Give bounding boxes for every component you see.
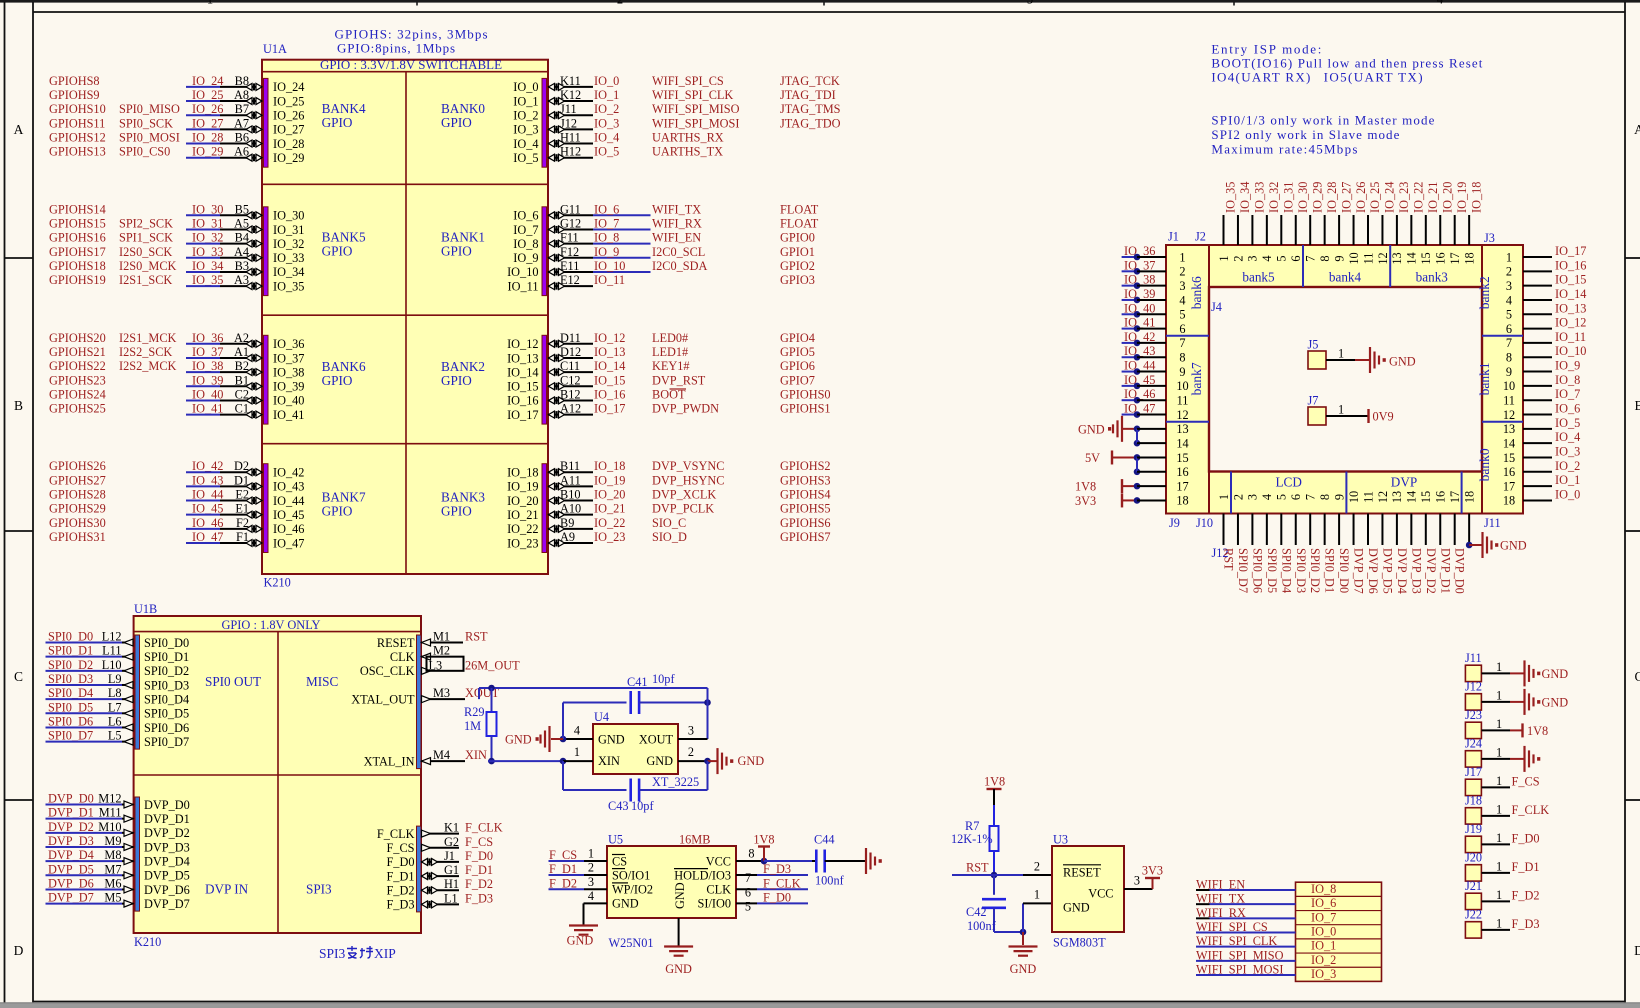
svg-text:F_D2: F_D2 (1512, 888, 1540, 902)
svg-text:DVP_D3: DVP_D3 (48, 834, 94, 848)
svg-text:bank1: bank1 (1477, 362, 1492, 395)
svg-text:IO_25: IO_25 (273, 94, 304, 108)
svg-text:GPIOHS0: GPIOHS0 (780, 387, 831, 401)
svg-text:SPI0_D4: SPI0_D4 (144, 692, 189, 706)
svg-text:GPIOHS28: GPIOHS28 (49, 488, 106, 502)
svg-text:DVP: DVP (1391, 475, 1417, 490)
svg-text:GPIOHS23: GPIOHS23 (49, 373, 106, 387)
svg-text:E12: E12 (560, 273, 580, 287)
svg-text:IO_43: IO_43 (192, 473, 223, 487)
svg-text:10: 10 (1503, 379, 1515, 393)
svg-text:GND: GND (646, 754, 673, 768)
svg-text:G12: G12 (560, 216, 581, 230)
svg-text:DVP_D0: DVP_D0 (48, 792, 94, 806)
svg-text:IO_24: IO_24 (1383, 182, 1397, 213)
svg-text:GND: GND (1500, 539, 1527, 553)
svg-text:IO_32: IO_32 (273, 237, 304, 251)
svg-text:F_CLK: F_CLK (465, 821, 503, 835)
svg-text:GPIOHS30: GPIOHS30 (49, 516, 106, 530)
svg-text:IO_8: IO_8 (594, 231, 619, 245)
svg-text:SI/IO0: SI/IO0 (698, 897, 731, 911)
svg-text:IO_26: IO_26 (1354, 182, 1368, 213)
svg-text:IO_17: IO_17 (594, 402, 625, 416)
svg-text:DVP_D4: DVP_D4 (48, 848, 94, 862)
svg-text:GND: GND (598, 733, 625, 747)
svg-text:I2S1_SCK: I2S1_SCK (119, 273, 172, 287)
svg-text:GPIOHS19: GPIOHS19 (49, 273, 106, 287)
svg-text:3V3: 3V3 (1075, 494, 1096, 508)
svg-text:DVP_D1: DVP_D1 (144, 812, 190, 826)
svg-text:GPIOHS11: GPIOHS11 (49, 116, 105, 130)
svg-text:IO_22: IO_22 (507, 522, 538, 536)
svg-text:FLOAT: FLOAT (780, 202, 819, 216)
svg-text:FLOAT: FLOAT (780, 216, 819, 230)
svg-text:J1: J1 (444, 849, 455, 863)
svg-text:F_D2: F_D2 (549, 876, 577, 890)
svg-text:M4: M4 (433, 748, 450, 762)
svg-text:WIFI_SPI_CLK: WIFI_SPI_CLK (652, 88, 733, 102)
svg-text:0V9: 0V9 (1373, 410, 1394, 424)
svg-text:IO_44: IO_44 (273, 494, 304, 508)
svg-text:SPI0_D0: SPI0_D0 (1337, 548, 1351, 593)
svg-text:IO_35: IO_35 (273, 279, 304, 293)
svg-text:12: 12 (1376, 491, 1390, 503)
svg-text:GPIO: GPIO (441, 373, 472, 388)
svg-text:4: 4 (1437, 0, 1444, 7)
svg-text:9: 9 (1332, 255, 1346, 261)
svg-text:DVP_D1: DVP_D1 (48, 806, 94, 820)
svg-text:3: 3 (1506, 279, 1512, 293)
svg-text:IO_34: IO_34 (1238, 182, 1252, 213)
svg-text:C41: C41 (627, 675, 648, 689)
svg-text:A10: A10 (560, 502, 581, 516)
svg-text:F_CLK: F_CLK (763, 876, 801, 890)
svg-text:1V8: 1V8 (984, 775, 1005, 789)
svg-text:R29: R29 (464, 705, 485, 719)
svg-text:14: 14 (1176, 436, 1188, 450)
svg-text:6: 6 (745, 886, 751, 900)
svg-text:GPIOHS3: GPIOHS3 (780, 473, 831, 487)
svg-text:BANK5: BANK5 (322, 230, 366, 245)
svg-text:UARTHS_RX: UARTHS_RX (652, 131, 724, 145)
svg-text:IO_31: IO_31 (192, 216, 223, 230)
svg-text:GPIO1: GPIO1 (780, 245, 815, 259)
svg-text:5: 5 (1506, 308, 1512, 322)
svg-text:IO_1: IO_1 (513, 94, 538, 108)
svg-text:IO_46: IO_46 (192, 516, 223, 530)
svg-text:BANK7: BANK7 (322, 490, 366, 505)
svg-text:IO_0: IO_0 (513, 80, 538, 94)
svg-text:BOOT(IO16) Pull low and then p: BOOT(IO16) Pull low and then press Reset (1211, 55, 1482, 70)
svg-text:SPI0_D3: SPI0_D3 (144, 678, 189, 692)
svg-text:U5: U5 (608, 833, 623, 847)
svg-text:1: 1 (1496, 859, 1502, 873)
svg-text:GPIOHS29: GPIOHS29 (49, 502, 106, 516)
svg-text:DVP_D0: DVP_D0 (1453, 548, 1467, 594)
svg-text:Maximum rate:45Mbps: Maximum rate:45Mbps (1211, 141, 1357, 156)
svg-text:SPI0_D2: SPI0_D2 (1308, 548, 1322, 593)
svg-text:C: C (1634, 669, 1640, 684)
svg-text:JTAG_TCK: JTAG_TCK (780, 74, 840, 88)
svg-text:GPIO: GPIO (322, 244, 353, 259)
svg-text:IO_11: IO_11 (594, 273, 625, 287)
svg-text:F_D1: F_D1 (549, 862, 577, 876)
svg-text:3: 3 (1246, 255, 1260, 261)
svg-text:DVP IN: DVP IN (205, 882, 249, 897)
svg-text:7: 7 (1506, 336, 1512, 350)
svg-text:8: 8 (1506, 351, 1512, 365)
svg-text:GPIO: GPIO (322, 504, 353, 519)
svg-text:GPIOHS26: GPIOHS26 (49, 459, 106, 473)
svg-text:IO_45: IO_45 (192, 502, 223, 516)
svg-text:BANK0: BANK0 (441, 101, 485, 116)
svg-text:1: 1 (1496, 717, 1502, 731)
svg-text:1: 1 (1338, 347, 1344, 361)
svg-text:2: 2 (1506, 265, 1512, 279)
svg-text:IO_8: IO_8 (1311, 882, 1336, 896)
svg-text:F_D0: F_D0 (465, 849, 493, 863)
svg-text:IO_1: IO_1 (594, 88, 619, 102)
svg-text:2: 2 (617, 0, 623, 7)
svg-text:K210: K210 (264, 576, 291, 590)
svg-text:L7: L7 (108, 700, 122, 714)
svg-text:IO_38: IO_38 (192, 359, 223, 373)
svg-text:LED0#: LED0# (652, 331, 688, 345)
svg-text:IO_19: IO_19 (1455, 182, 1469, 213)
svg-text:IO_16: IO_16 (594, 387, 625, 401)
svg-text:GND: GND (1542, 696, 1569, 710)
svg-text:WIFI_SPI_MISO: WIFI_SPI_MISO (652, 102, 740, 116)
svg-text:DVP_D7: DVP_D7 (144, 897, 190, 911)
svg-text:1: 1 (588, 847, 594, 861)
svg-text:GPIOHS8: GPIOHS8 (49, 74, 100, 88)
svg-text:DVP_D2: DVP_D2 (144, 826, 190, 840)
svg-text:C42: C42 (966, 905, 987, 919)
svg-text:DVP_D6: DVP_D6 (48, 876, 94, 890)
svg-text:GND: GND (673, 882, 687, 909)
svg-text:GPIOHS25: GPIOHS25 (49, 402, 106, 416)
svg-text:GPIOHS10: GPIOHS10 (49, 102, 106, 116)
svg-text:IO_12: IO_12 (507, 337, 538, 351)
svg-text:10pf: 10pf (652, 672, 675, 686)
svg-text:IO_5: IO_5 (513, 151, 538, 165)
svg-text:IO_47: IO_47 (273, 536, 304, 550)
svg-text:DVP_D5: DVP_D5 (144, 869, 190, 883)
svg-text:RESET: RESET (1063, 866, 1101, 880)
svg-text:F_D0: F_D0 (763, 890, 791, 904)
svg-text:IO_2: IO_2 (1311, 953, 1336, 967)
svg-text:15: 15 (1419, 491, 1433, 503)
svg-text:1: 1 (1496, 745, 1502, 759)
svg-text:18: 18 (1462, 252, 1476, 264)
svg-text:IO_17: IO_17 (507, 408, 538, 422)
svg-text:7: 7 (1304, 255, 1318, 261)
svg-text:D11: D11 (560, 331, 581, 345)
svg-text:IO_15: IO_15 (594, 373, 625, 387)
svg-text:5: 5 (745, 900, 751, 914)
svg-text:I2S0_SCK: I2S0_SCK (119, 245, 172, 259)
svg-text:SPI0_SCK: SPI0_SCK (119, 116, 173, 130)
svg-text:4: 4 (1179, 293, 1185, 307)
svg-text:IO_15: IO_15 (1555, 273, 1586, 287)
svg-text:GPIO2: GPIO2 (780, 259, 815, 273)
svg-text:10: 10 (1347, 252, 1361, 264)
svg-text:GPIOHS: 32pins, 3Mbps: GPIOHS: 32pins, 3Mbps (335, 27, 488, 42)
svg-text:IO_26: IO_26 (192, 102, 223, 116)
svg-text:A12: A12 (560, 402, 581, 416)
svg-text:B11: B11 (560, 459, 580, 473)
svg-text:SPI0_D1: SPI0_D1 (144, 650, 189, 664)
svg-text:2: 2 (1179, 265, 1185, 279)
svg-text:8: 8 (1318, 494, 1332, 500)
svg-text:XIN: XIN (598, 754, 620, 768)
svg-text:13: 13 (1503, 422, 1515, 436)
svg-text:DVP_D4: DVP_D4 (144, 854, 190, 868)
svg-text:4: 4 (574, 724, 580, 738)
svg-text:IO_23: IO_23 (507, 536, 538, 550)
svg-text:SIO_C: SIO_C (652, 516, 686, 530)
svg-text:SPI0_D7: SPI0_D7 (1236, 548, 1250, 593)
svg-text:3: 3 (1246, 494, 1260, 500)
svg-text:F_D1: F_D1 (386, 869, 414, 883)
svg-text:E11: E11 (560, 259, 579, 273)
svg-text:5: 5 (1275, 494, 1289, 500)
svg-text:UARTHS_TX: UARTHS_TX (652, 145, 723, 159)
svg-text:GND: GND (738, 754, 765, 768)
svg-text:W25N01: W25N01 (609, 936, 654, 950)
svg-text:IO_15: IO_15 (507, 380, 538, 394)
svg-text:IO_38: IO_38 (273, 365, 304, 379)
svg-text:17: 17 (1448, 491, 1462, 503)
svg-text:16: 16 (1434, 252, 1448, 264)
svg-text:SPI1_SCK: SPI1_SCK (119, 231, 173, 245)
svg-text:M5: M5 (104, 891, 121, 905)
svg-text:IO_18: IO_18 (1469, 182, 1483, 213)
svg-text:C12: C12 (560, 373, 581, 387)
svg-text:IO_3: IO_3 (1555, 444, 1580, 458)
svg-text:SPI0_D3: SPI0_D3 (48, 672, 93, 686)
svg-text:IO5(UART TX): IO5(UART TX) (1324, 69, 1423, 84)
svg-text:IO_27: IO_27 (192, 116, 223, 130)
svg-text:1: 1 (1506, 250, 1512, 264)
svg-text:SGM803T: SGM803T (1053, 936, 1106, 950)
svg-text:IO_9: IO_9 (513, 251, 538, 265)
svg-text:J2: J2 (1195, 230, 1206, 244)
svg-text:J12: J12 (560, 116, 577, 130)
svg-text:SPI0_MOSI: SPI0_MOSI (119, 131, 180, 145)
svg-text:SPI0_D6: SPI0_D6 (48, 714, 93, 728)
svg-text:C43: C43 (608, 799, 629, 813)
svg-text:M6: M6 (104, 876, 121, 890)
svg-text:GPIO:8pins, 1Mbps: GPIO:8pins, 1Mbps (337, 41, 455, 56)
svg-text:IO_44: IO_44 (192, 488, 223, 502)
svg-text:1: 1 (1338, 403, 1344, 417)
svg-text:B9: B9 (560, 516, 574, 530)
svg-text:1: 1 (1496, 660, 1502, 674)
svg-text:IO_35: IO_35 (192, 273, 223, 287)
svg-text:IO_3: IO_3 (1311, 967, 1336, 981)
svg-text:IO_7: IO_7 (1555, 387, 1580, 401)
svg-text:L9: L9 (108, 672, 122, 686)
svg-text:G11: G11 (560, 202, 581, 216)
svg-text:SPI0_D0: SPI0_D0 (144, 636, 189, 650)
svg-text:IO_34: IO_34 (192, 259, 223, 273)
svg-text:IO_26: IO_26 (273, 109, 304, 123)
svg-text:SPI0_D0: SPI0_D0 (48, 630, 93, 644)
svg-text:3V3: 3V3 (1142, 864, 1163, 878)
svg-text:DVP_D6: DVP_D6 (144, 883, 190, 897)
svg-text:2: 2 (1231, 255, 1245, 261)
svg-text:IO_22: IO_22 (1412, 182, 1426, 213)
svg-text:U4: U4 (594, 710, 609, 724)
svg-text:15: 15 (1503, 451, 1515, 465)
svg-text:2: 2 (1231, 494, 1245, 500)
svg-text:XT_3225: XT_3225 (652, 775, 699, 789)
svg-text:C44: C44 (814, 833, 835, 847)
svg-text:IO_10: IO_10 (594, 259, 625, 273)
svg-text:SPI2_SCK: SPI2_SCK (119, 216, 173, 230)
svg-text:11: 11 (1503, 394, 1515, 408)
svg-text:IO_21: IO_21 (594, 502, 625, 516)
svg-text:1: 1 (1496, 916, 1502, 930)
svg-text:DVP_D4: DVP_D4 (1395, 548, 1409, 594)
svg-text:J11: J11 (1465, 651, 1482, 665)
svg-text:IO_36: IO_36 (192, 331, 223, 345)
svg-text:WIFI_EN: WIFI_EN (652, 231, 701, 245)
svg-text:GPIOHS12: GPIOHS12 (49, 131, 106, 145)
svg-text:F_CLK: F_CLK (377, 827, 415, 841)
svg-text:M8: M8 (104, 848, 121, 862)
svg-text:17: 17 (1503, 479, 1515, 493)
svg-text:IO_2: IO_2 (513, 109, 538, 123)
svg-text:IO_1: IO_1 (1555, 473, 1580, 487)
svg-text:GPIO: GPIO (322, 373, 353, 388)
svg-text:IO_2: IO_2 (1555, 459, 1580, 473)
svg-text:GPIO: GPIO (441, 115, 472, 130)
svg-text:IO_28: IO_28 (273, 137, 304, 151)
svg-text:DVP_D5: DVP_D5 (1380, 548, 1394, 594)
svg-text:CLK: CLK (390, 650, 415, 664)
svg-text:M1: M1 (433, 630, 450, 644)
svg-text:IO_25: IO_25 (192, 88, 223, 102)
svg-text:SPI0_CS0: SPI0_CS0 (119, 145, 170, 159)
svg-text:F_D0: F_D0 (386, 855, 414, 869)
svg-text:SPI0 OUT: SPI0 OUT (205, 674, 261, 689)
svg-text:IO_42: IO_42 (273, 466, 304, 480)
svg-text:IO_4: IO_4 (594, 131, 619, 145)
svg-text:F_CS: F_CS (1512, 774, 1540, 788)
svg-text:DVP_D6: DVP_D6 (1366, 548, 1380, 594)
svg-text:6: 6 (1506, 322, 1512, 336)
svg-text:I2C0_SCL: I2C0_SCL (652, 245, 705, 259)
svg-text:IO_30: IO_30 (273, 209, 304, 223)
svg-text:bank4: bank4 (1329, 270, 1362, 285)
svg-text:GPIOHS7: GPIOHS7 (780, 530, 831, 544)
svg-text:GPIO3: GPIO3 (780, 273, 815, 287)
svg-text:2: 2 (588, 861, 594, 875)
svg-text:IO_18: IO_18 (594, 459, 625, 473)
svg-text:IO_34: IO_34 (273, 265, 304, 279)
svg-text:XIP: XIP (374, 946, 396, 961)
svg-text:IO_6: IO_6 (1555, 402, 1580, 416)
svg-text:GND: GND (567, 934, 594, 948)
svg-text:IO_18: IO_18 (507, 466, 538, 480)
svg-text:D12: D12 (560, 345, 581, 359)
svg-text:1: 1 (1034, 888, 1040, 902)
svg-text:F_CS: F_CS (549, 848, 577, 862)
svg-text:GPIO : 3.3V/1.8V SWITCHABLE: GPIO : 3.3V/1.8V SWITCHABLE (320, 57, 502, 72)
svg-text:IO_4: IO_4 (1555, 430, 1580, 444)
svg-text:SPI0_D5: SPI0_D5 (1265, 548, 1279, 593)
svg-text:RST: RST (465, 630, 488, 644)
svg-text:L3: L3 (429, 658, 443, 672)
svg-text:GPIOHS16: GPIOHS16 (49, 231, 106, 245)
svg-text:J11: J11 (1484, 516, 1501, 530)
svg-text:GPIO : 1.8V ONLY: GPIO : 1.8V ONLY (221, 618, 320, 632)
svg-text:F_CS: F_CS (465, 835, 493, 849)
svg-text:J22: J22 (1465, 907, 1482, 921)
svg-text:IO_8: IO_8 (513, 237, 538, 251)
svg-text:DVP_D7: DVP_D7 (1352, 548, 1366, 594)
svg-text:SPI3: SPI3 (319, 946, 346, 961)
svg-text:IO_8: IO_8 (1555, 373, 1580, 387)
svg-text:IO_31: IO_31 (1282, 182, 1296, 213)
svg-text:SPI0_D7: SPI0_D7 (144, 735, 189, 749)
svg-text:DVP_D1: DVP_D1 (1438, 548, 1452, 594)
svg-text:18: 18 (1462, 491, 1476, 503)
svg-text:J17: J17 (1465, 765, 1482, 779)
svg-text:IO_0: IO_0 (1311, 925, 1336, 939)
svg-text:IO_39: IO_39 (192, 373, 223, 387)
svg-text:IO_23: IO_23 (594, 530, 625, 544)
svg-text:GPIOHS13: GPIOHS13 (49, 145, 106, 159)
svg-text:18: 18 (1176, 494, 1188, 508)
svg-text:IO_0: IO_0 (1555, 487, 1580, 501)
svg-text:17: 17 (1448, 252, 1462, 264)
svg-text:DVP_VSYNC: DVP_VSYNC (652, 459, 724, 473)
svg-text:GND: GND (612, 897, 639, 911)
svg-text:IO_0: IO_0 (594, 74, 619, 88)
svg-text:K210: K210 (134, 935, 161, 949)
svg-text:12: 12 (1376, 252, 1390, 264)
svg-text:7: 7 (745, 871, 751, 885)
svg-text:L6: L6 (108, 714, 122, 728)
svg-text:H12: H12 (560, 145, 581, 159)
svg-text:11: 11 (1361, 491, 1375, 503)
svg-text:14: 14 (1503, 436, 1515, 450)
svg-text:IO_29: IO_29 (192, 145, 223, 159)
svg-text:A: A (14, 122, 24, 137)
svg-text:IO_24: IO_24 (273, 80, 304, 94)
svg-text:J24: J24 (1465, 736, 1482, 750)
svg-text:J11: J11 (560, 102, 577, 116)
svg-text:H1: H1 (444, 877, 459, 891)
svg-text:M12: M12 (98, 792, 121, 806)
svg-text:1: 1 (207, 0, 213, 7)
svg-text:17: 17 (1176, 479, 1188, 493)
svg-text:IO_17: IO_17 (1555, 244, 1586, 258)
svg-text:GPIOHS21: GPIOHS21 (49, 345, 106, 359)
svg-text:D: D (14, 943, 24, 958)
svg-text:WIFI_SPI_CS: WIFI_SPI_CS (652, 74, 724, 88)
svg-text:100nf: 100nf (967, 919, 997, 933)
svg-text:M11: M11 (99, 806, 122, 820)
svg-text:bank2: bank2 (1477, 276, 1492, 309)
svg-text:13: 13 (1390, 491, 1404, 503)
svg-text:IO_12: IO_12 (1555, 316, 1586, 330)
svg-text:IO_31: IO_31 (273, 223, 304, 237)
svg-text:IO_16: IO_16 (1555, 258, 1586, 272)
